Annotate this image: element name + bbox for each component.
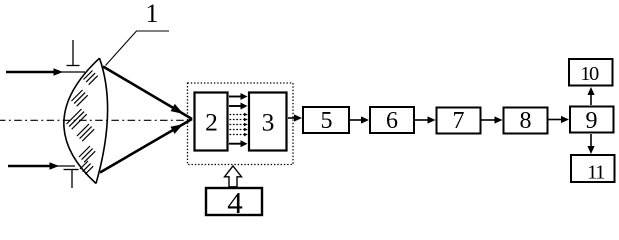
svg-text:11: 11 (587, 162, 605, 184)
svg-text:2: 2 (205, 108, 218, 137)
box 11 (571, 155, 615, 182)
box 2 (195, 93, 228, 151)
box 3 (249, 93, 287, 151)
lower input ray arrow (8, 162, 75, 169)
box 5 (303, 107, 349, 133)
svg-text:3: 3 (262, 108, 275, 137)
arrow 6 to 7 (415, 116, 436, 123)
upper input ray arrow (6, 68, 85, 75)
lower aperture mark (64, 170, 79, 189)
hollow arrow 4 to enclosure (225, 166, 242, 187)
box 10 (569, 59, 613, 86)
lens hatching (67, 71, 98, 175)
box 4 (206, 188, 262, 215)
svg-text:5: 5 (321, 108, 333, 134)
dotted links 2 to 3 (230, 113, 248, 137)
arrows 2 to 3 (solid) (229, 93, 248, 147)
svg-text:4: 4 (227, 185, 243, 219)
box 8 (504, 108, 548, 134)
svg-text:8: 8 (520, 108, 532, 134)
box 9 (570, 107, 614, 133)
arrow 5 to 6 (350, 116, 369, 123)
box 7 (437, 108, 481, 134)
lower converging ray (100, 119, 192, 173)
svg-text:9: 9 (586, 108, 598, 134)
svg-text:6: 6 (386, 108, 398, 134)
upper converging ray (103, 67, 192, 120)
arrow 9 to 10 (587, 87, 594, 105)
upper aperture mark (67, 40, 80, 66)
svg-text:10: 10 (580, 63, 599, 85)
optical axis (dash-dot line) (0, 119, 192, 121)
svg-text:1: 1 (146, 0, 159, 28)
arrow 7 to 8 (482, 116, 503, 123)
svg-text:7: 7 (453, 108, 465, 134)
arrow 8 to 9 (549, 116, 570, 123)
arrow 9 to 11 (587, 134, 594, 154)
box 6 (370, 107, 414, 133)
lens (meniscus outline) (64, 58, 108, 183)
arrow 3 to 5 (288, 114, 302, 121)
label 1 leader line (106, 31, 170, 66)
dashed enclosure around 2 and 3 (188, 83, 294, 165)
